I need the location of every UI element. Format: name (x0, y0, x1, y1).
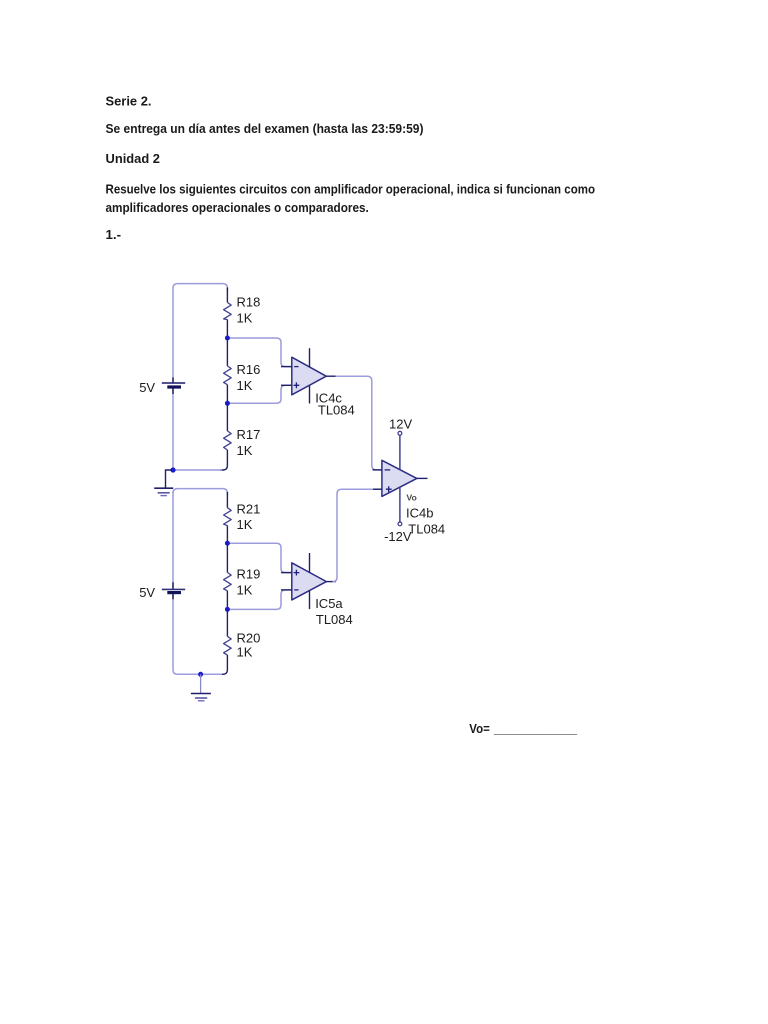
svg-text:Resuelve los siguientes circui: Resuelve los siguientes circuitos con am… (106, 181, 596, 196)
wire node C to IC5a non-inverting input (227, 543, 291, 572)
op-amp IC5a bottom power pin (309, 591, 311, 609)
svg-text:____________: ____________ (493, 721, 578, 736)
battery V2 5V top lead (172, 582, 174, 589)
svg-text:5V: 5V (139, 585, 155, 600)
wire lead R21 bottom to node C (226, 526, 228, 544)
svg-text:TL084: TL084 (316, 612, 353, 627)
svg-text:R17: R17 (237, 427, 261, 442)
svg-text:amplificadores operacionales o: amplificadores operacionales o comparado… (106, 200, 369, 215)
resistor R20 (224, 636, 232, 655)
op-amp IC4c output stub (326, 375, 336, 377)
node B junction dot (225, 401, 230, 406)
svg-text:R21: R21 (237, 502, 261, 517)
resistor R21 (224, 508, 232, 526)
wire battery V1 bottom to node E (172, 394, 174, 470)
wire lead node B to R17 top (226, 403, 228, 431)
op-amp IC4b top power pin wire to 12V (399, 435, 401, 470)
op-amp IC4b plus sign (386, 486, 392, 492)
wire lead into R18 top (226, 288, 228, 303)
resistor R18 (224, 302, 232, 319)
svg-text:R19: R19 (237, 566, 261, 581)
wire node A to IC4c inverting input (227, 338, 291, 367)
wire battery V2 bottom to bottom rail (173, 599, 222, 674)
op-amp IC4b inverting input stub (373, 469, 382, 471)
wire lead R16 bottom to node B (226, 385, 228, 404)
svg-text:12V: 12V (389, 417, 412, 432)
battery V1 short plate (167, 385, 181, 388)
ground G2 (191, 694, 211, 701)
op-amp IC4b non-inverting input stub (373, 488, 382, 490)
wire top rail from battery V1 up and across to R18 (173, 284, 227, 378)
node E junction dot (170, 467, 175, 472)
wire lead R18 bottom to node A (226, 320, 228, 338)
svg-text:Unidad 2: Unidad 2 (106, 151, 161, 166)
op-amp U1 IC4c triangle (292, 357, 326, 395)
wire left branch down to battery V2 (172, 491, 174, 582)
node A junction dot (225, 336, 230, 341)
svg-text:1K: 1K (237, 517, 253, 532)
svg-text:1K: 1K (237, 443, 253, 458)
op-amp IC4c top power pin (309, 348, 311, 367)
wire lead R19 bottom to node D (226, 591, 228, 610)
op-amp IC5a inverting input stub (281, 589, 292, 591)
terminal circle 12V (398, 431, 402, 435)
svg-text:Se entrega un día antes del ex: Se entrega un día antes del examen (hast… (106, 121, 424, 136)
svg-text:1.-: 1.- (106, 227, 122, 242)
battery V2 long plate (162, 588, 185, 590)
svg-text:Serie 2.: Serie 2. (106, 94, 152, 109)
wire lead node A to R16 top (226, 338, 228, 366)
wire node D to IC5a inverting input (227, 590, 291, 610)
svg-text:TL084: TL084 (408, 521, 445, 536)
wire lead node C to R19 top (226, 543, 228, 572)
wire lead R20 bottom to bottom rail (220, 655, 227, 674)
wire IC5a output up to IC4b non-inverting input (333, 489, 382, 581)
op-amp IC4c non-inverting input stub (281, 384, 292, 386)
wire lower rail top from ground to R21 (173, 489, 227, 495)
svg-text:1K: 1K (237, 583, 253, 598)
svg-text:IC4b: IC4b (406, 505, 433, 520)
svg-text:1K: 1K (237, 311, 253, 326)
op-amp U3 IC4b triangle (382, 460, 417, 496)
op-amp IC4c plus sign (294, 382, 300, 388)
battery V1 long plate (162, 382, 185, 384)
op-amp IC4b bottom power pin wire to -12V (399, 487, 401, 522)
wire lead into R21 top (226, 492, 228, 508)
svg-text:IC5a: IC5a (315, 596, 343, 611)
op-amp U2 IC5a triangle (292, 563, 327, 600)
battery V1 5V top lead (172, 378, 174, 384)
wire node B to IC4c non-inverting input (227, 385, 291, 403)
wire node F to ground G2 stem (200, 674, 202, 693)
svg-text:Vo=: Vo= (469, 721, 490, 736)
op-amp IC5a minus sign (294, 589, 298, 591)
svg-text:R20: R20 (237, 631, 261, 646)
op-amp IC5a output stub (326, 581, 336, 583)
wire IC4c output to IC4b inverting input (336, 376, 382, 470)
node F junction dot (198, 672, 203, 677)
battery V2 short plate (167, 591, 181, 594)
op-amp IC4c inverting input stub (281, 366, 292, 368)
op-amp IC4c minus sign (294, 366, 298, 368)
battery V1 bottom lead (172, 387, 174, 394)
op-amp IC4b minus sign (385, 469, 391, 471)
svg-text:1K: 1K (237, 645, 253, 660)
battery V2 bottom lead (172, 593, 174, 600)
wire lead R17 bottom to mid rail (220, 450, 227, 470)
svg-text:5V: 5V (139, 380, 155, 395)
ground G1 (154, 488, 173, 495)
svg-text:TL084: TL084 (318, 402, 355, 417)
wire mid rail to node E (173, 469, 222, 471)
wire node E to ground G1 stem (166, 470, 173, 488)
svg-text:1K: 1K (237, 378, 253, 393)
op-amp IC5a plus sign (294, 570, 300, 576)
op-amp IC4c bottom power pin (309, 386, 311, 404)
resistor R19 (224, 572, 232, 590)
node C junction dot (225, 541, 230, 546)
node D junction dot (225, 607, 230, 612)
svg-text:Vo: Vo (406, 493, 416, 503)
resistor R17 (224, 431, 232, 450)
svg-text:R16: R16 (237, 362, 261, 377)
op-amp IC4b output stub (417, 477, 428, 479)
op-amp IC5a non-inverting input stub (281, 572, 292, 574)
op-amp IC5a top power pin (309, 553, 311, 573)
terminal circle -12V (398, 522, 402, 526)
wire lead node D to R20 top (226, 609, 228, 636)
resistor R16 (224, 366, 232, 385)
svg-text:R18: R18 (237, 295, 261, 310)
